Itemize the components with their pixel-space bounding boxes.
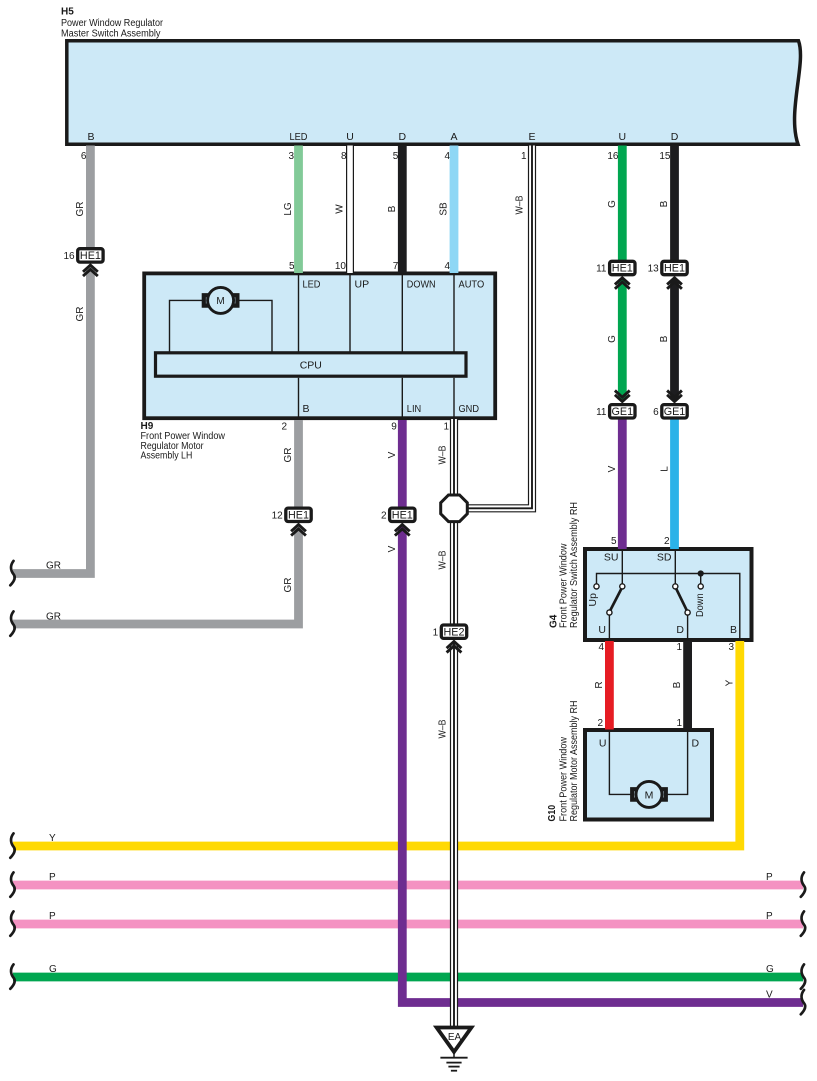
svg-text:2: 2 <box>281 422 287 433</box>
wire D lead in G10 <box>666 731 688 794</box>
svg-text:LED: LED <box>303 279 321 291</box>
svg-text:Up: Up <box>587 593 599 607</box>
G4 pin numbers <box>598 536 734 653</box>
motor M in G10 <box>632 781 666 807</box>
svg-text:M: M <box>645 789 654 801</box>
svg-text:1: 1 <box>676 718 682 729</box>
svg-text:Master Switch Assembly: Master Switch Assembly <box>61 29 161 40</box>
svg-text:V: V <box>387 451 398 458</box>
svg-text:16: 16 <box>63 251 75 262</box>
wire Up lower contact to pin U <box>608 615 610 640</box>
svg-text:HE1: HE1 <box>80 250 101 262</box>
connector HE1 pin 13 <box>648 261 688 289</box>
svg-text:U: U <box>599 738 607 750</box>
svg-text:LG: LG <box>283 202 294 216</box>
ECU H5 Power Window Regulator Master Switch Assembly box <box>67 41 801 144</box>
wire GR gray H5 pin6 to left edge <box>13 146 90 574</box>
svg-text:HE2: HE2 <box>443 626 464 638</box>
wire B black H5 D to H9 DOWN <box>398 146 407 274</box>
svg-text:DOWN: DOWN <box>407 279 436 291</box>
H9 pin numbers top <box>289 261 451 272</box>
svg-text:GE1: GE1 <box>664 406 686 418</box>
wire L blue GE1 to G4 SD <box>670 418 679 549</box>
svg-text:P: P <box>766 872 773 883</box>
wire B black G4 D to G10 <box>683 641 692 730</box>
svg-text:1: 1 <box>433 627 439 638</box>
ground EA <box>437 1028 472 1071</box>
SWITCH G4 Front Power Window Regulator Switch Assembly RH box <box>585 549 752 640</box>
H5 pin numbers <box>81 151 671 162</box>
motor M in H9 <box>204 287 238 313</box>
svg-text:B: B <box>659 335 670 342</box>
label G10 title rotated <box>547 701 580 822</box>
connector HE1 pin 16 <box>63 249 103 276</box>
svg-text:12: 12 <box>272 510 284 521</box>
svg-text:B: B <box>303 403 310 415</box>
switch Up blade <box>610 589 621 611</box>
svg-text:GR: GR <box>283 448 294 463</box>
label H9 title <box>141 421 226 462</box>
svg-text:CPU: CPU <box>300 359 322 371</box>
svg-text:U: U <box>598 624 606 636</box>
svg-text:11: 11 <box>596 264 607 275</box>
svg-text:P: P <box>766 911 773 922</box>
wire SD lead in G4 <box>674 551 676 584</box>
wire SB sky blue H5 A to H9 AUTO <box>450 146 459 274</box>
wire dot to Down contact <box>700 574 702 584</box>
svg-text:GR: GR <box>46 561 61 572</box>
wire color labels horizontal <box>46 561 774 1001</box>
svg-text:B: B <box>672 681 683 688</box>
svg-text:G: G <box>49 964 57 975</box>
wire W-B H9 GND to junction node <box>450 419 458 497</box>
svg-text:UP: UP <box>355 279 370 291</box>
svg-text:2: 2 <box>664 536 670 547</box>
svg-text:LED: LED <box>290 131 308 143</box>
svg-text:2: 2 <box>597 718 603 729</box>
svg-text:Front Power Window: Front Power Window <box>559 736 570 821</box>
wire W-B H5 E to junction node <box>467 146 532 509</box>
svg-text:G10: G10 <box>547 805 558 822</box>
svg-text:W–B: W–B <box>438 550 449 569</box>
wire color labels rotated <box>75 195 735 738</box>
svg-text:P: P <box>49 911 56 922</box>
svg-text:10: 10 <box>335 261 347 272</box>
svg-text:U: U <box>619 131 627 143</box>
svg-text:AUTO: AUTO <box>459 279 485 291</box>
svg-text:GR: GR <box>46 612 61 623</box>
wire V violet H9 LIN to right edge <box>402 420 803 1003</box>
svg-text:15: 15 <box>659 151 671 162</box>
svg-text:HE1: HE1 <box>612 263 633 275</box>
wire SU lead in G4 <box>621 551 623 584</box>
svg-text:R: R <box>594 681 605 688</box>
svg-text:3: 3 <box>728 642 734 653</box>
svg-text:LIN: LIN <box>407 403 421 415</box>
svg-text:SU: SU <box>604 552 619 564</box>
svg-text:P: P <box>49 872 56 883</box>
wire W white H5 U to H9 UP <box>346 146 354 274</box>
ECU H9 Front Power Window Regulator Motor Assembly LH box <box>144 273 495 418</box>
label G4 title rotated <box>549 502 581 628</box>
wire P pink lower <box>13 920 803 929</box>
svg-text:1: 1 <box>676 642 682 653</box>
H9 internal divider UP <box>349 275 351 352</box>
svg-text:V: V <box>387 545 398 552</box>
H9 internal divider DOWN <box>401 275 403 352</box>
H5 pin name labels <box>87 131 678 143</box>
svg-text:EA: EA <box>448 1032 462 1043</box>
svg-text:W–B: W–B <box>438 445 449 464</box>
H9 internal divider GND below CPU <box>453 378 455 417</box>
node junction octagon <box>441 495 468 522</box>
connector GE1 pin 11 <box>596 391 635 419</box>
H9 internal divider LIN below CPU <box>401 378 403 417</box>
wire B black H5 D to GE1 <box>670 146 679 405</box>
svg-text:5: 5 <box>611 536 617 547</box>
svg-text:A: A <box>450 131 457 143</box>
wire motor right lead in H9 <box>237 300 272 352</box>
svg-text:Regulator Switch Assembly RH: Regulator Switch Assembly RH <box>569 502 580 628</box>
svg-text:Regulator Motor Assembly RH: Regulator Motor Assembly RH <box>569 701 580 822</box>
wire Y yellow G4 pin3 to left edge <box>13 641 740 846</box>
break symbols left edge <box>10 561 14 989</box>
svg-text:L: L <box>660 466 671 472</box>
wire G green horizontal <box>13 973 803 982</box>
H9 internal divider LED <box>298 275 300 352</box>
break symbols right edge <box>801 872 805 1014</box>
svg-text:Power Window Regulator: Power Window Regulator <box>61 18 164 29</box>
svg-text:5: 5 <box>393 151 399 162</box>
svg-text:13: 13 <box>648 264 660 275</box>
svg-text:GR: GR <box>75 202 86 217</box>
switch Down blade <box>676 589 687 611</box>
svg-text:G: G <box>607 335 618 343</box>
CPU block U2 <box>156 353 467 376</box>
H9 internal divider AUTO <box>453 275 455 352</box>
svg-text:4: 4 <box>444 151 450 162</box>
svg-text:1: 1 <box>443 422 449 433</box>
svg-text:W–B: W–B <box>515 195 526 214</box>
svg-text:M: M <box>216 296 224 307</box>
svg-text:W: W <box>335 204 346 214</box>
svg-text:5: 5 <box>289 261 295 272</box>
G4 internal labels <box>587 552 737 637</box>
svg-text:B: B <box>730 624 737 636</box>
svg-text:Front Power Window: Front Power Window <box>559 543 570 628</box>
svg-text:H5: H5 <box>61 7 74 18</box>
connector GE1 pin 6 <box>653 391 687 419</box>
svg-text:D: D <box>676 624 684 636</box>
wire U lead in G10 <box>609 731 632 794</box>
wire GR gray H9 pinB to left edge <box>13 420 299 624</box>
svg-text:4: 4 <box>444 261 450 272</box>
svg-text:Y: Y <box>724 679 735 686</box>
wire P pink upper <box>13 881 803 890</box>
svg-text:E: E <box>528 131 535 143</box>
svg-text:9: 9 <box>391 422 397 433</box>
svg-text:3: 3 <box>288 151 294 162</box>
wire Down lower contact to pin D <box>687 615 689 640</box>
svg-text:HE1: HE1 <box>288 509 309 521</box>
svg-text:16: 16 <box>607 151 619 162</box>
svg-text:11: 11 <box>596 407 607 418</box>
svg-text:HE1: HE1 <box>664 263 685 275</box>
connector HE1 pin 2 <box>381 508 415 535</box>
svg-text:D: D <box>671 131 679 143</box>
H9 internal divider B below CPU <box>298 378 300 417</box>
svg-text:SD: SD <box>657 552 672 564</box>
svg-text:W–B: W–B <box>438 719 449 738</box>
contact circles G4 <box>594 584 703 615</box>
label H5 title <box>61 7 164 40</box>
svg-text:B: B <box>659 200 670 207</box>
svg-text:G: G <box>607 200 618 208</box>
MOTOR G10 Front Power Window Regulator Motor Assembly RH box <box>585 730 712 820</box>
H9 pin numbers bottom <box>281 422 449 433</box>
wire W-B junction node to ground EA <box>450 520 458 1028</box>
connector HE2 pin 1 <box>433 625 467 653</box>
G10 pin numbers <box>597 718 682 729</box>
svg-text:GR: GR <box>75 307 86 322</box>
svg-text:U: U <box>346 131 354 143</box>
svg-text:B: B <box>87 131 94 143</box>
svg-text:V: V <box>766 990 773 1001</box>
svg-text:V: V <box>607 465 618 472</box>
svg-text:B: B <box>387 205 398 212</box>
svg-text:1: 1 <box>521 151 527 162</box>
svg-text:6: 6 <box>653 407 659 418</box>
svg-text:GR: GR <box>283 578 294 593</box>
wire motor left lead in H9 <box>170 300 204 352</box>
svg-text:Down: Down <box>694 593 706 617</box>
wire LG light green H5 LED to H9 <box>294 146 303 274</box>
svg-text:4: 4 <box>598 642 604 653</box>
wire G green H5 U to GE1 <box>618 146 627 405</box>
svg-text:G: G <box>766 964 774 975</box>
svg-text:D: D <box>692 738 700 750</box>
svg-text:D: D <box>399 131 407 143</box>
wire V violet GE1 to G4 SU <box>618 418 627 549</box>
svg-text:2: 2 <box>381 510 387 521</box>
wire bus line in G4 to pin B <box>597 574 740 641</box>
connector HE1 pin 11 <box>596 261 635 289</box>
svg-text:HE1: HE1 <box>392 509 413 521</box>
H9 internal pin labels <box>303 279 485 416</box>
svg-text:Y: Y <box>49 833 56 844</box>
node junction dot in G4 <box>698 570 704 576</box>
svg-text:GE1: GE1 <box>611 406 633 418</box>
svg-text:7: 7 <box>393 261 399 272</box>
G10 internal labels <box>599 738 700 750</box>
svg-text:6: 6 <box>81 151 87 162</box>
svg-text:SB: SB <box>439 202 450 216</box>
connector HE1 pin 12 <box>272 508 312 535</box>
wire R red G4 U to G10 <box>605 641 614 730</box>
svg-text:GND: GND <box>459 403 480 415</box>
svg-text:Assembly LH: Assembly LH <box>141 451 193 462</box>
